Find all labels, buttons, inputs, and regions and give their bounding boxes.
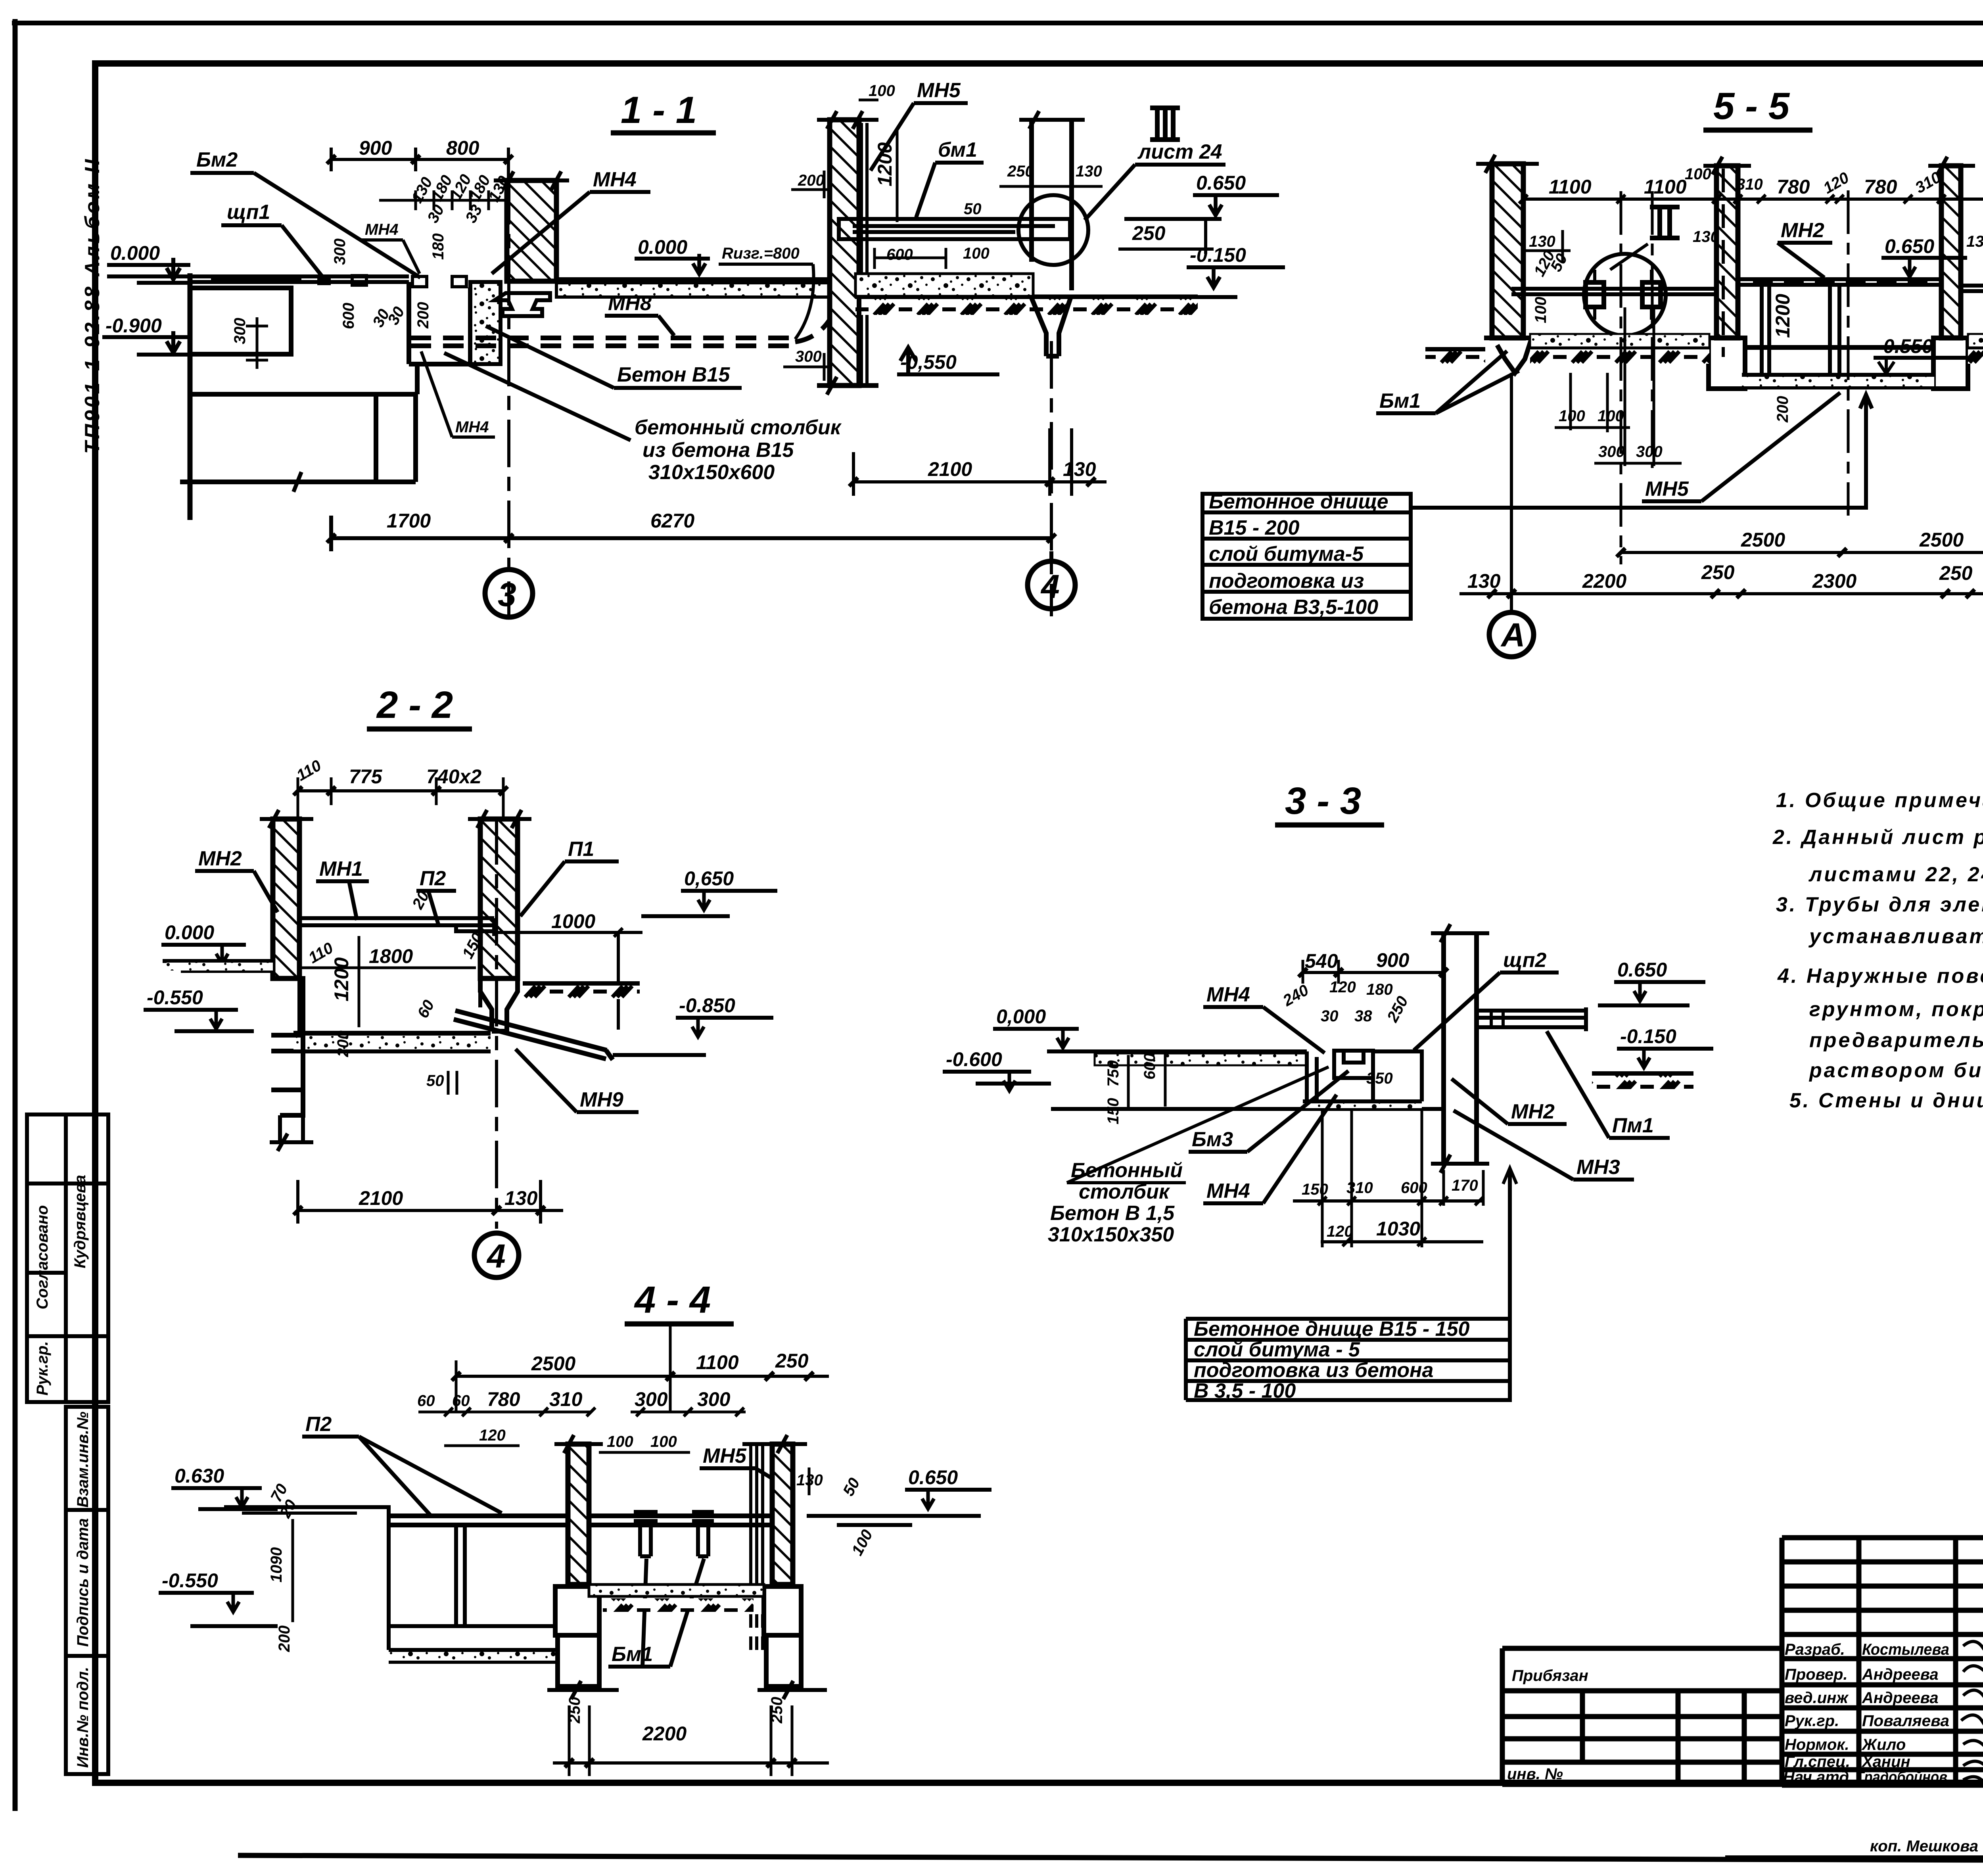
ground line right xyxy=(855,295,1198,300)
beam П1 right xyxy=(1477,1007,1586,1031)
bottom dim line xyxy=(331,516,1051,563)
left lower box xyxy=(190,288,417,394)
bottom dim line 2100/130 xyxy=(853,428,1107,496)
svg-text:170: 170 xyxy=(1452,1177,1478,1194)
привязан table xyxy=(1502,1648,1782,1784)
svg-text:300: 300 xyxy=(331,238,349,265)
stipple band between foundations xyxy=(589,1584,764,1596)
svg-text:100: 100 xyxy=(1532,297,1550,323)
ground line seg3 xyxy=(1745,345,1933,350)
svg-text:0.630: 0.630 xyxy=(175,1465,224,1487)
svg-text:Провер.: Провер. xyxy=(1785,1666,1848,1683)
svg-text:180: 180 xyxy=(1366,981,1393,998)
svg-text:из бетона В15: из бетона В15 xyxy=(642,439,794,462)
section symbol III xyxy=(1150,108,1180,140)
dim line 900/800 xyxy=(331,148,508,180)
column top cap xyxy=(1431,924,1489,942)
dashed pipe run xyxy=(410,338,795,346)
floor line left xyxy=(224,1505,391,1509)
svg-text:Ханин: Ханин xyxy=(1861,1753,1910,1770)
svg-text:3 - 3: 3 - 3 xyxy=(1285,780,1361,822)
svg-text:Согласовано: Согласовано xyxy=(34,1205,51,1310)
МН5 pipes beside wall xyxy=(861,123,867,384)
svg-text:120: 120 xyxy=(479,1427,506,1444)
svg-text:Бм1: Бм1 xyxy=(1379,389,1421,412)
left structure wall xyxy=(188,273,193,520)
svg-text:0.650: 0.650 xyxy=(1196,172,1246,194)
center wall top cap xyxy=(554,1435,603,1453)
svg-text:МН4: МН4 xyxy=(593,168,637,191)
svg-text:Взам.инв.№: Взам.инв.№ xyxy=(74,1412,92,1508)
svg-text:слой битума-5: слой битума-5 xyxy=(1209,543,1364,566)
sheet outer border bottom xyxy=(238,1855,1983,1862)
second dim row 60 60 780 310 xyxy=(418,1411,591,1414)
note box Бетонное днище В15-150 xyxy=(1186,1319,1510,1400)
svg-text:МН5: МН5 xyxy=(1645,478,1689,501)
wall W1 hatched xyxy=(1492,164,1523,338)
slab П2 panels xyxy=(389,1516,777,1525)
svg-text:Рук.гр.: Рук.гр. xyxy=(34,1341,51,1395)
svg-text:600: 600 xyxy=(886,246,913,263)
svg-text:2 - 2: 2 - 2 xyxy=(376,684,453,726)
svg-text:300: 300 xyxy=(795,348,822,365)
svg-text:Бетон В15: Бетон В15 xyxy=(617,363,730,386)
channel block Бм3 xyxy=(1334,1051,1373,1078)
svg-text:устанавливать под наблюдение: устанавливать под наблюдением электромон… xyxy=(1808,925,1983,948)
rail МН8 profile xyxy=(495,293,550,316)
svg-text:740х2: 740х2 xyxy=(426,765,481,788)
svg-text:200: 200 xyxy=(798,172,825,189)
svg-text:4. Наружные поверхности кана: 4. Наружные поверхности каналов , соприк… xyxy=(1777,965,1983,988)
svg-text:250: 250 xyxy=(1939,562,1973,584)
svg-text:инв. №: инв. № xyxy=(1507,1765,1563,1783)
svg-text:Разраб.: Разраб. xyxy=(1785,1641,1845,1658)
top dim line 2500/1100/250 xyxy=(456,1375,829,1378)
svg-text:щп1: щп1 xyxy=(227,201,270,224)
detail circle II xyxy=(1584,254,1666,336)
svg-text:лист 24: лист 24 xyxy=(1137,140,1222,163)
svg-text:-0.600: -0.600 xyxy=(946,1048,1002,1070)
svg-text:МН5: МН5 xyxy=(703,1444,747,1467)
W3 top cap xyxy=(1928,157,1975,175)
svg-text:МН4: МН4 xyxy=(455,418,489,436)
svg-text:Бм3: Бм3 xyxy=(1192,1128,1233,1151)
ground hatch xyxy=(855,299,1198,315)
slab lower line xyxy=(1051,1107,1307,1111)
svg-text:1800: 1800 xyxy=(369,945,413,967)
svg-text:МН3: МН3 xyxy=(1576,1156,1620,1179)
svg-text:50: 50 xyxy=(964,200,982,218)
svg-text:4: 4 xyxy=(1040,568,1060,605)
level 0.000 left mark xyxy=(167,258,180,279)
svg-text:МН4: МН4 xyxy=(1206,983,1250,1006)
svg-text:Андреева: Андреева xyxy=(1862,1689,1939,1707)
svg-text:4: 4 xyxy=(486,1237,506,1275)
concrete column stipple block xyxy=(470,282,501,364)
svg-text:300: 300 xyxy=(697,1388,731,1410)
svg-text:0.000: 0.000 xyxy=(165,921,214,944)
wall top break cap xyxy=(494,171,569,190)
svg-text:1. Общие примечания смотреть: 1. Общие примечания смотреть лист 1. xyxy=(1776,789,1983,812)
svg-text:2100: 2100 xyxy=(928,458,972,480)
svg-text:-0.150: -0.150 xyxy=(1190,244,1246,266)
МН5 pipes xyxy=(751,1444,763,1584)
right part of section 1-1 xyxy=(783,79,1285,616)
level -0.900 mark xyxy=(167,331,180,353)
svg-text:750: 750 xyxy=(1105,1060,1122,1087)
svg-text:310: 310 xyxy=(549,1388,583,1410)
right wall footing shoe xyxy=(480,978,518,1031)
svg-text:МН1: МН1 xyxy=(319,857,363,880)
left margin lower boxes xyxy=(66,1407,108,1774)
anchor notches МН4 in pit xyxy=(412,276,466,287)
svg-text:3: 3 xyxy=(498,576,516,613)
svg-text:-0.150: -0.150 xyxy=(1620,1025,1676,1047)
embedded plate щп1 on slab xyxy=(211,274,301,280)
svg-text:2500: 2500 xyxy=(1741,529,1785,551)
svg-text:300: 300 xyxy=(231,318,249,344)
svg-text:-0.900: -0.900 xyxy=(105,315,162,337)
svg-text:0.650: 0.650 xyxy=(908,1466,958,1489)
rod clamp block 2 xyxy=(1642,282,1661,307)
sub dim line xyxy=(379,190,507,210)
ground line seg4 xyxy=(1968,345,1983,350)
sheet outer border top xyxy=(12,21,1983,25)
grid circle A xyxy=(1489,612,1534,657)
right wall top cap xyxy=(468,810,531,828)
trench walls xyxy=(1307,1051,1317,1101)
svg-text:Пм1: Пм1 xyxy=(1612,1114,1654,1137)
svg-text:300: 300 xyxy=(635,1388,668,1410)
chamber bottom slab xyxy=(271,1033,491,1051)
leader line from note box to trench floor xyxy=(1412,395,1872,508)
guide verticals xyxy=(1322,1109,1483,1247)
left pedestal xyxy=(180,394,416,482)
svg-text:900: 900 xyxy=(359,137,392,159)
leader from note box up xyxy=(1508,1170,1512,1317)
svg-text:900: 900 xyxy=(1376,949,1410,971)
svg-text:1100: 1100 xyxy=(696,1351,739,1373)
svg-text:300: 300 xyxy=(1636,443,1663,460)
svg-text:0,000: 0,000 xyxy=(996,1005,1046,1028)
column top cap xyxy=(1019,111,1085,129)
svg-text:Кудрявцева: Кудрявцева xyxy=(71,1175,89,1268)
right foundation blocks xyxy=(764,1586,801,1686)
svg-text:600: 600 xyxy=(340,303,357,329)
svg-text:350: 350 xyxy=(1366,1070,1393,1087)
grid centerline 4 xyxy=(1050,341,1053,616)
svg-text:200: 200 xyxy=(334,1030,352,1057)
center foundation blocks xyxy=(555,1586,599,1686)
svg-text:-0.850: -0.850 xyxy=(679,994,735,1017)
svg-text:Рук.гр.: Рук.гр. xyxy=(1785,1712,1839,1730)
svg-text:0.650: 0.650 xyxy=(1617,959,1667,981)
dim line 540/900 xyxy=(1303,971,1444,974)
W2 footing xyxy=(1709,338,1745,389)
staffing table grid xyxy=(1782,1538,1983,1785)
svg-text:100: 100 xyxy=(650,1433,677,1450)
svg-text:60: 60 xyxy=(417,1392,435,1410)
svg-text:1100: 1100 xyxy=(1644,176,1687,198)
center hatched wall xyxy=(568,1444,589,1584)
svg-text:Гл.спец.: Гл.спец. xyxy=(1785,1753,1850,1770)
left wall foundation blocks xyxy=(271,978,303,1115)
svg-text:1000: 1000 xyxy=(551,910,595,932)
svg-text:бм1: бм1 xyxy=(938,138,977,161)
detail circle III xyxy=(1018,195,1088,265)
svg-text:слой битума - 5: слой битума - 5 xyxy=(1194,1338,1360,1361)
vertical to grid circle A xyxy=(1510,373,1513,613)
svg-text:200: 200 xyxy=(276,1625,293,1652)
svg-text:раствором битума в бензине.: раствором битума в бензине. xyxy=(1808,1059,1983,1082)
bottom slab xyxy=(389,1650,555,1662)
svg-text:775: 775 xyxy=(349,765,383,788)
floor line right of wall xyxy=(807,1516,981,1525)
svg-text:600: 600 xyxy=(1401,1179,1427,1197)
svg-text:МН5: МН5 xyxy=(917,79,961,102)
svg-text:310х150х350: 310х150х350 xyxy=(1048,1223,1174,1246)
svg-text:130: 130 xyxy=(1693,228,1719,246)
svg-text:П2: П2 xyxy=(420,867,446,890)
svg-text:1100: 1100 xyxy=(1549,176,1592,198)
W2 hidden edge dashed xyxy=(1722,169,1725,357)
break mark on bottom line xyxy=(293,472,301,492)
ground line seg2 xyxy=(1530,345,1709,350)
plate right in trench xyxy=(1373,1051,1422,1101)
svg-text:6270: 6270 xyxy=(650,510,694,532)
svg-text:60: 60 xyxy=(452,1392,470,1410)
svg-text:5. Стены и днище каналов вы: 5. Стены и днище каналов выполнить из бе… xyxy=(1789,1089,1983,1112)
svg-text:200: 200 xyxy=(1774,396,1791,423)
svg-text:150: 150 xyxy=(1105,1098,1122,1124)
bottom dim line xyxy=(553,1761,829,1765)
wall top cap xyxy=(817,111,878,129)
beam Бм1 horizontal xyxy=(839,219,1070,239)
wall W2 hatched xyxy=(1716,166,1738,338)
svg-text:Бм2: Бм2 xyxy=(196,148,238,171)
svg-text:Бетонное днище: Бетонное днище xyxy=(1209,490,1388,513)
dashed curve up to wall xyxy=(795,305,837,342)
W2 top cap xyxy=(1703,157,1751,175)
column verticals xyxy=(1032,120,1072,290)
wall W3 hatched xyxy=(1941,166,1961,338)
svg-text:2. Данный лист рассматривать: 2. Данный лист рассматривать совместно с xyxy=(1772,826,1983,849)
W1 top cap xyxy=(1476,155,1539,173)
right wall top cap xyxy=(742,1435,807,1453)
svg-text:1030: 1030 xyxy=(1376,1218,1420,1240)
svg-text:130: 130 xyxy=(1529,233,1555,250)
svg-text:Костылева: Костылева xyxy=(1862,1641,1949,1658)
trench floor xyxy=(1293,1101,1444,1109)
svg-text:130: 130 xyxy=(1966,233,1983,250)
svg-text:Нач.атд: Нач.атд xyxy=(1783,1769,1849,1786)
trench floor xyxy=(1742,375,1934,387)
svg-text:2300: 2300 xyxy=(1812,570,1856,592)
svg-text:коп. Мешкова: коп. Мешкова xyxy=(1870,1838,1978,1855)
ground hatch below xyxy=(603,1598,754,1612)
left wall hatched xyxy=(273,819,299,978)
centerline left pair xyxy=(1621,191,1652,564)
grid circle 3 xyxy=(485,570,533,617)
svg-text:щп2: щп2 xyxy=(1503,949,1546,972)
rod clamp block 1 xyxy=(1586,282,1604,307)
svg-text:Прибязан: Прибязан xyxy=(1512,1667,1588,1684)
svg-text:0.000: 0.000 xyxy=(638,236,687,258)
svg-text:50: 50 xyxy=(426,1072,444,1090)
W1 footing shoe xyxy=(1484,338,1532,373)
column bottom cap xyxy=(1431,1155,1489,1173)
svg-text:Бетонное днище В15 - 150: Бетонное днище В15 - 150 xyxy=(1194,1318,1469,1341)
centerline mid xyxy=(1847,190,1850,516)
svg-text:Бетон В 1,5: Бетон В 1,5 xyxy=(1050,1202,1175,1225)
svg-text:Подпись и дата: Подпись и дата xyxy=(74,1518,92,1647)
svg-text:0.000: 0.000 xyxy=(110,242,160,264)
svg-text:В15 - 200: В15 - 200 xyxy=(1209,516,1299,539)
svg-text:38: 38 xyxy=(1354,1007,1372,1025)
svg-text:150: 150 xyxy=(1302,1181,1328,1198)
svg-text:780: 780 xyxy=(487,1388,520,1410)
svg-text:-0.550: -0.550 xyxy=(147,986,203,1009)
chamber mid slab xyxy=(299,918,494,936)
svg-text:П1: П1 xyxy=(568,838,594,861)
svg-text:Поваляева: Поваляева xyxy=(1862,1712,1949,1730)
top dim line xyxy=(1523,198,1983,201)
svg-text:100: 100 xyxy=(869,82,895,100)
svg-text:П2: П2 xyxy=(305,1413,332,1436)
svg-text:600: 600 xyxy=(1141,1053,1158,1080)
svg-text:2500: 2500 xyxy=(531,1352,575,1375)
ground line left segment xyxy=(1425,347,1485,352)
cover slab middle trench xyxy=(1738,279,1941,285)
svg-text:1 - 1: 1 - 1 xyxy=(621,89,697,131)
svg-text:1200: 1200 xyxy=(874,142,896,186)
svg-text:800: 800 xyxy=(446,137,479,159)
svg-text:1200: 1200 xyxy=(1772,294,1794,338)
right wall hatched xyxy=(480,819,518,978)
svg-text:МН2: МН2 xyxy=(1781,219,1824,242)
right slab stipple band xyxy=(556,283,833,297)
svg-text:2200: 2200 xyxy=(1582,570,1626,592)
svg-text:250: 250 xyxy=(1701,561,1735,583)
left wall top cap xyxy=(260,810,313,828)
svg-text:2100: 2100 xyxy=(359,1187,403,1209)
right column xyxy=(1444,933,1477,1164)
svg-text:130: 130 xyxy=(504,1187,538,1209)
second dim row 300 300 xyxy=(631,1411,746,1414)
right hatched wall xyxy=(772,1444,793,1584)
svg-text:1090: 1090 xyxy=(268,1547,285,1583)
svg-text:бетона В3,5-100: бетона В3,5-100 xyxy=(1209,596,1378,619)
svg-text:540: 540 xyxy=(1305,950,1338,972)
svg-text:0.650: 0.650 xyxy=(1885,235,1934,257)
anchor bolt Бм1 left xyxy=(634,1512,658,1556)
grid centerline 4 under 2-2 xyxy=(495,817,498,1229)
svg-text:МН4: МН4 xyxy=(365,221,398,238)
svg-text:1200: 1200 xyxy=(330,957,353,1001)
svg-text:грунтом, покрыть горячим би: грунтом, покрыть горячим битумом за 2 ра… xyxy=(1809,998,1983,1021)
svg-text:310: 310 xyxy=(1736,176,1763,193)
svg-text:2500: 2500 xyxy=(1919,529,1964,551)
svg-text:180: 180 xyxy=(430,233,447,260)
grid circle 4 xyxy=(474,1233,519,1278)
hatched wall column middle xyxy=(507,180,556,281)
right wall hatched xyxy=(830,120,859,386)
signatures squiggles xyxy=(1961,1642,1983,1785)
svg-text:100: 100 xyxy=(607,1433,633,1450)
svg-text:А: А xyxy=(1500,616,1525,654)
dim line 2500 2500 xyxy=(1621,551,1983,554)
right slab top line xyxy=(556,277,833,282)
sheet outer border left xyxy=(13,19,18,1811)
floor line left slab xyxy=(107,276,409,282)
svg-text:250: 250 xyxy=(1132,222,1166,244)
svg-text:Андреева: Андреева xyxy=(1862,1666,1939,1683)
svg-text:МН9: МН9 xyxy=(580,1088,623,1111)
МН9 drain pipe xyxy=(454,1011,613,1060)
left chamber walls xyxy=(389,1507,465,1650)
svg-text:-0.550: -0.550 xyxy=(162,1569,218,1592)
svg-text:В 3,5 - 100: В 3,5 - 100 xyxy=(1194,1379,1296,1402)
svg-text:Rизг.=800: Rизг.=800 xyxy=(722,245,800,262)
svg-text:Инв.№ подл.: Инв.№ подл. xyxy=(74,1667,92,1768)
anchor bolt Бм1 right xyxy=(692,1512,714,1556)
svg-text:1700: 1700 xyxy=(387,510,431,532)
svg-text:310х150х600: 310х150х600 xyxy=(648,461,775,484)
svg-text:вед.инж: вед.инж xyxy=(1785,1689,1849,1707)
wall lower part xyxy=(817,297,878,386)
stipple band seg2 xyxy=(1530,334,1709,347)
svg-text:Бм1: Бм1 xyxy=(612,1643,653,1666)
svg-text:130: 130 xyxy=(1076,163,1102,180)
svg-text:120: 120 xyxy=(1329,978,1356,996)
svg-text:4 - 4: 4 - 4 xyxy=(634,1279,711,1321)
ground line right of 2-2 xyxy=(523,981,640,986)
svg-text:130: 130 xyxy=(1063,458,1096,480)
level 0.000 mid mark xyxy=(693,254,706,274)
grid centerline 3 xyxy=(507,177,510,616)
svg-text:МН2: МН2 xyxy=(1511,1100,1555,1123)
svg-text:Жило: Жило xyxy=(1861,1736,1906,1753)
svg-text:МН2: МН2 xyxy=(198,847,242,870)
chamber inner walls xyxy=(299,925,480,1033)
svg-text:Градобойнов: Градобойнов xyxy=(1856,1769,1947,1786)
chamber floor xyxy=(389,1624,555,1628)
svg-text:ТП901-1-92.88 Альбом II: ТП901-1-92.88 Альбом II xyxy=(81,157,104,454)
svg-text:200: 200 xyxy=(414,302,432,329)
top dim line xyxy=(298,789,503,792)
svg-text:предварительно огрунтованной: предварительно огрунтованной поверхности xyxy=(1809,1029,1983,1052)
svg-text:Нормок.: Нормок. xyxy=(1785,1736,1849,1753)
svg-text:130: 130 xyxy=(1467,570,1501,592)
left floor slab xyxy=(163,961,273,971)
svg-text:100: 100 xyxy=(1685,165,1711,183)
svg-text:подготовка из бетона: подготовка из бетона xyxy=(1194,1359,1433,1382)
svg-text:бетонный столбик: бетонный столбик xyxy=(635,416,842,439)
svg-text:МН8: МН8 xyxy=(608,292,652,315)
pit walls xyxy=(409,282,470,364)
svg-text:МН4: МН4 xyxy=(1206,1180,1250,1203)
bottom dim line 2100/130 xyxy=(298,1209,563,1212)
svg-text:780: 780 xyxy=(1864,176,1897,198)
label II roman xyxy=(1650,207,1680,238)
trench walls xyxy=(1762,279,1839,377)
ground line right xyxy=(1592,1071,1693,1076)
svg-text:листами 22, 24, 25.: листами 22, 24, 25. xyxy=(1808,863,1983,886)
stipple band under beam xyxy=(855,274,1033,296)
svg-text:100: 100 xyxy=(963,245,990,262)
anchor rod left xyxy=(1511,289,1717,294)
svg-text:3. Трубы для электрокабелей: 3. Трубы для электрокабелей и закладные … xyxy=(1776,893,1983,916)
